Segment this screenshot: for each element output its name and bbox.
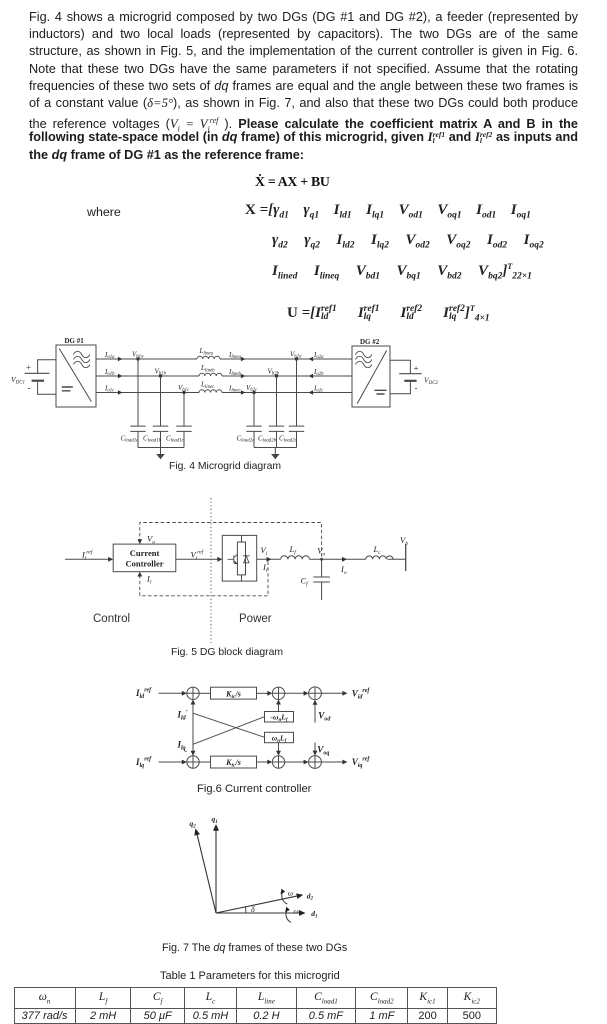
svg-text:Ilqref: Ilqref bbox=[135, 757, 152, 770]
wire phase a left bbox=[96, 358, 197, 360]
svg-text:Il: Il bbox=[262, 562, 268, 574]
wire phase b right bbox=[222, 375, 352, 377]
Kic/s d label bbox=[225, 689, 241, 700]
Ilqref label bbox=[135, 757, 152, 770]
Vod label bbox=[318, 711, 331, 723]
svg-text:+: + bbox=[414, 364, 419, 374]
cross wire Ilq to -wnLf bbox=[193, 717, 265, 745]
Llinea label bbox=[199, 347, 214, 356]
transistor symbol bbox=[228, 554, 238, 564]
axis q2 bbox=[197, 834, 216, 913]
current arrow Io2a bbox=[309, 357, 314, 361]
wire phase a right bbox=[220, 358, 352, 360]
node Vb1b bbox=[159, 374, 162, 377]
arrow Vod into summer d3 bbox=[313, 700, 318, 705]
capacitor Cf bbox=[313, 559, 330, 600]
Vb2c label bbox=[246, 384, 258, 393]
arrow Vo into controller bbox=[137, 539, 142, 544]
Vb label bbox=[400, 535, 408, 547]
current arrow Ilineb bbox=[241, 374, 246, 378]
DG2 diagonal bbox=[357, 350, 387, 403]
svg-text:VDC1: VDC1 bbox=[11, 375, 25, 386]
figure 6: current controller block diagram bbox=[130, 675, 390, 785]
arrow q1 bbox=[213, 824, 219, 831]
svg-text:Viqref: Viqref bbox=[352, 757, 371, 770]
omega label at d1 bbox=[294, 906, 299, 915]
capacitor Cload1a bbox=[130, 359, 145, 448]
Io2a label bbox=[313, 351, 324, 360]
svg-text:Kic/s: Kic/s bbox=[225, 689, 241, 700]
ground rail load1 bbox=[138, 448, 184, 455]
node Vb1c bbox=[182, 391, 185, 394]
svg-text:Vidref: Vidref bbox=[352, 688, 371, 701]
omega arc at d1 bbox=[286, 910, 291, 923]
axis d2 bbox=[216, 896, 298, 913]
svg-text:q2: q2 bbox=[190, 819, 197, 829]
U row bbox=[287, 304, 490, 324]
node Vb1a bbox=[136, 357, 139, 360]
node Vb2c bbox=[252, 391, 255, 394]
equation Xdot = AX + BU bbox=[255, 174, 330, 190]
Vi label bbox=[261, 545, 268, 557]
figure 4: microgrid diagram bbox=[0, 330, 460, 462]
current arrow Io2c bbox=[309, 390, 314, 394]
svg-text:Vb1a: Vb1a bbox=[132, 350, 144, 359]
X = [...] row 1 bbox=[245, 202, 531, 221]
omega arc at d2 bbox=[282, 892, 288, 905]
arrow Vidref bbox=[342, 691, 347, 696]
caption fig 4 bbox=[169, 461, 281, 472]
bus bar Vb bbox=[405, 544, 407, 571]
svg-text:-: - bbox=[415, 383, 418, 393]
inductor Llineb bbox=[199, 373, 222, 376]
svg-text:Cload2a: Cload2a bbox=[237, 434, 256, 443]
X row 2 bbox=[272, 232, 544, 251]
current controller text bbox=[125, 548, 163, 569]
svg-text:Kic/s: Kic/s bbox=[225, 758, 241, 769]
omega arrow at d2 bbox=[281, 889, 286, 895]
Lf label bbox=[289, 544, 298, 556]
Io1c label bbox=[104, 384, 115, 393]
axis q1 bbox=[215, 830, 217, 914]
svg-text:Vi: Vi bbox=[261, 545, 268, 557]
svg-text:δ: δ bbox=[251, 905, 255, 914]
d1 label bbox=[311, 909, 317, 919]
Io2c label bbox=[313, 384, 324, 393]
Ilinec label bbox=[228, 384, 242, 393]
d2 label bbox=[307, 891, 314, 901]
figure 5: DG block diagram bbox=[60, 495, 420, 645]
-wnLf box bbox=[265, 712, 294, 723]
svg-text:Io2c: Io2c bbox=[313, 384, 324, 393]
axis d1 bbox=[216, 912, 300, 914]
DG #1 label bbox=[65, 337, 85, 345]
svg-text:Vb2b: Vb2b bbox=[268, 367, 280, 376]
Io label bbox=[340, 564, 347, 576]
arrow Il on output wire bbox=[267, 557, 272, 562]
Io2b label bbox=[313, 368, 324, 377]
svg-text:q1: q1 bbox=[212, 815, 218, 825]
svg-text:Lf: Lf bbox=[289, 544, 298, 556]
DG2 AC symbol bbox=[356, 351, 372, 367]
inductor Lc bbox=[366, 556, 393, 559]
node Vb2b bbox=[275, 374, 278, 377]
Vo feedback label bbox=[147, 533, 155, 545]
arrow Viqref bbox=[342, 760, 347, 765]
DG2 DC symbol bbox=[375, 390, 387, 394]
svg-text:-: - bbox=[28, 383, 31, 393]
Ilineb label bbox=[228, 368, 242, 377]
svg-text:Vb2c: Vb2c bbox=[246, 384, 258, 393]
svg-text:Ilineb: Ilineb bbox=[228, 368, 242, 377]
DG1 DC symbol bbox=[62, 387, 73, 391]
DG1 diagonal bbox=[59, 349, 91, 402]
svg-text:Cload2b: Cload2b bbox=[258, 434, 277, 443]
summer q3 bbox=[309, 756, 322, 769]
svg-text:Controller: Controller bbox=[125, 559, 163, 569]
wnLf label bbox=[272, 734, 288, 744]
svg-text:Io2a: Io2a bbox=[313, 351, 324, 360]
feedback vertical line bbox=[192, 700, 194, 756]
svg-text:Io2b: Io2b bbox=[313, 368, 324, 377]
Vod input stub bbox=[314, 703, 316, 723]
current arrow Ilinec bbox=[241, 390, 246, 394]
svg-text:-: - bbox=[185, 747, 188, 756]
capacitor Cload2a bbox=[246, 393, 261, 448]
battery VDC2 minus sign bbox=[415, 383, 418, 393]
summer q2 bbox=[272, 756, 284, 768]
svg-text:Voq: Voq bbox=[317, 745, 329, 757]
wire Viqref output bbox=[321, 761, 344, 763]
Cload2a label bbox=[237, 434, 256, 443]
Kic/s q label bbox=[225, 758, 241, 769]
svg-text:Cload1c: Cload1c bbox=[166, 434, 185, 443]
arrow into summer d2 bbox=[267, 691, 272, 696]
Llineb label bbox=[200, 364, 215, 373]
ground load2 bbox=[271, 454, 279, 459]
figure 7: dq frames bbox=[180, 810, 340, 940]
wire box to summer d2 bbox=[257, 692, 269, 694]
X row 3 bbox=[272, 262, 532, 282]
DC source VDC1 label bbox=[11, 375, 25, 386]
arrow Voq into summer q3 bbox=[313, 751, 318, 756]
svg-text:Cload2c: Cload2c bbox=[279, 434, 298, 443]
Cload2b label bbox=[258, 434, 277, 443]
Cload1c label bbox=[166, 434, 185, 443]
svg-text:Ildref: Ildref bbox=[135, 688, 152, 701]
where bbox=[87, 205, 121, 219]
svg-text:DG #2: DG #2 bbox=[360, 338, 380, 346]
svg-text:d1: d1 bbox=[311, 909, 317, 919]
Viref label bbox=[191, 549, 205, 562]
svg-text:Vod: Vod bbox=[318, 711, 331, 723]
battery VDC2 short plate bbox=[404, 380, 416, 382]
wire phase b left bbox=[96, 375, 199, 377]
svg-text:Io1c: Io1c bbox=[104, 384, 115, 393]
svg-text:Lc: Lc bbox=[373, 544, 382, 556]
Voq label bbox=[317, 745, 329, 757]
svg-text:Cload1a: Cload1a bbox=[121, 434, 140, 443]
svg-text:d2: d2 bbox=[307, 891, 314, 901]
Cload2c label bbox=[279, 434, 298, 443]
wire box to summer q2 bbox=[257, 761, 269, 763]
cross wire Ild to wnLf bbox=[193, 713, 265, 737]
arrow into inverter bbox=[217, 557, 222, 562]
Ilinea label bbox=[228, 351, 242, 360]
Vb1b label bbox=[155, 367, 167, 376]
wire Vi out of inverter bbox=[257, 558, 281, 560]
inverter box bbox=[222, 535, 256, 581]
svg-text:Vb1b: Vb1b bbox=[155, 367, 167, 376]
arrow up into summer d2 bbox=[276, 700, 281, 705]
Io1b label bbox=[104, 368, 115, 377]
table title bbox=[160, 970, 340, 982]
wire DG2 to battery2 top bbox=[390, 360, 410, 374]
arrow down into summer q2 bbox=[276, 751, 281, 756]
arrow d2 bbox=[296, 893, 303, 899]
svg-text:Vo: Vo bbox=[147, 533, 155, 545]
omega arrow at d1 bbox=[285, 907, 290, 913]
svg-text:+: + bbox=[26, 363, 31, 373]
svg-text:ω: ω bbox=[288, 889, 293, 898]
arrow into summer q3 bbox=[304, 760, 309, 765]
q2 label bbox=[190, 819, 197, 829]
svg-text:ω: ω bbox=[294, 906, 299, 915]
Cf label bbox=[301, 576, 310, 588]
Vb2a label bbox=[290, 350, 302, 359]
wire -wnLf to summer d2 bbox=[278, 703, 280, 712]
capacitor Cload1b bbox=[153, 376, 168, 448]
paragraph text bbox=[29, 9, 578, 164]
svg-text:Llineb: Llineb bbox=[200, 364, 215, 373]
svg-text:Io: Io bbox=[340, 564, 347, 576]
svg-text:-ωnLf: -ωnLf bbox=[271, 713, 289, 723]
Ilq feedback label bbox=[177, 740, 186, 752]
inverter DG#2 box bbox=[352, 346, 390, 407]
Kic/s box q bbox=[211, 756, 257, 768]
wire battery1 bottom to DG1 bbox=[38, 382, 56, 395]
svg-text:Llinea: Llinea bbox=[199, 347, 214, 356]
summer d3 bbox=[309, 687, 322, 700]
wnLf box bbox=[265, 732, 294, 742]
Vb2b label bbox=[268, 367, 280, 376]
svg-text:Cf: Cf bbox=[301, 576, 310, 588]
svg-text:Ilinec: Ilinec bbox=[228, 384, 242, 393]
control/power separator bbox=[210, 498, 212, 643]
Vb1a label bbox=[132, 350, 144, 359]
summer d1 bbox=[187, 687, 199, 699]
DG1 AC symbol bbox=[74, 351, 90, 367]
current controller box bbox=[113, 544, 176, 572]
wire phase c left bbox=[96, 392, 199, 394]
arrow Ild up into summer d1 bbox=[191, 700, 196, 705]
svg-text:Vb2a: Vb2a bbox=[290, 350, 302, 359]
Vidref label bbox=[352, 688, 371, 701]
arrow into summer q2 bbox=[267, 760, 272, 765]
svg-text:Io1a: Io1a bbox=[104, 351, 115, 360]
battery VDC1 long plate bbox=[25, 372, 50, 374]
wire Ilqref input bbox=[159, 761, 184, 763]
inductor Llinea bbox=[197, 356, 220, 359]
Ild feedback label bbox=[177, 709, 188, 722]
wire Lc to bus bbox=[387, 558, 405, 560]
wire DG2 to battery2 bottom bbox=[390, 382, 410, 394]
svg-text:Ilinea: Ilinea bbox=[228, 351, 242, 360]
svg-text:Current: Current bbox=[130, 548, 160, 558]
arrow into summer d1 bbox=[182, 691, 187, 696]
Cload1a label bbox=[121, 434, 140, 443]
svg-text:Llinec: Llinec bbox=[200, 381, 215, 390]
Il feedback label bbox=[146, 574, 152, 586]
svg-text:Io1b: Io1b bbox=[104, 368, 115, 377]
Vb1c label bbox=[178, 384, 190, 393]
inverter leg rect bbox=[237, 542, 245, 575]
current arrow Io2b bbox=[309, 374, 314, 378]
svg-text:DG #1: DG #1 bbox=[65, 337, 85, 345]
arrow Il into controller bbox=[137, 572, 142, 577]
q1 label bbox=[212, 815, 218, 825]
node Vb2a bbox=[295, 357, 298, 360]
ground load1 bbox=[156, 454, 164, 459]
-wnLf label bbox=[271, 713, 289, 723]
diode symbol bbox=[243, 556, 250, 563]
summer q1 bbox=[187, 756, 199, 768]
wire Vidref output bbox=[321, 692, 344, 694]
Ildref label bbox=[135, 688, 152, 701]
battery VDC1 short plate bbox=[32, 380, 44, 382]
arrow into controller bbox=[108, 557, 113, 562]
svg-text:Vb: Vb bbox=[400, 535, 408, 547]
svg-text:Vb1c: Vb1c bbox=[178, 384, 190, 393]
wire Viref bbox=[176, 558, 219, 560]
current arrow Io1c bbox=[118, 390, 123, 394]
Kic/s box d bbox=[211, 687, 257, 699]
wire Ildref input bbox=[159, 692, 184, 694]
arrow Ilq down into summer q1 bbox=[191, 751, 196, 756]
wire wnLf to summer q2 bbox=[278, 743, 280, 753]
inverter DG#1 box bbox=[56, 345, 96, 407]
minus sign at summer q1 bbox=[185, 747, 188, 756]
wire Lf to node Vo bbox=[310, 558, 366, 560]
Il label bbox=[262, 562, 268, 574]
capacitor Cload2b bbox=[269, 376, 284, 448]
parameters table bbox=[14, 987, 497, 1024]
arrow q2 bbox=[194, 828, 200, 835]
current arrow Io1b bbox=[118, 374, 123, 378]
battery VDC2 long plate bbox=[399, 373, 421, 375]
arrow d1 bbox=[299, 910, 306, 916]
Lc label bbox=[373, 544, 382, 556]
arrow into summer q1 bbox=[182, 760, 187, 765]
svg-text:Ild-: Ild- bbox=[177, 709, 188, 722]
wire summer d2 to summer d3 bbox=[285, 692, 305, 694]
DG #2 label bbox=[360, 338, 380, 346]
svg-text:Cload1b: Cload1b bbox=[143, 434, 162, 443]
ground rail load2 bbox=[254, 448, 297, 455]
wire q1 to box bbox=[199, 761, 210, 763]
Llinec label bbox=[200, 381, 215, 390]
wire d1 to box bbox=[199, 692, 210, 694]
delta label bbox=[251, 905, 255, 914]
inductor Lf bbox=[281, 556, 310, 560]
svg-text:VDC2: VDC2 bbox=[424, 376, 439, 387]
svg-text:Il: Il bbox=[146, 574, 152, 586]
DC source VDC2 label bbox=[424, 376, 439, 387]
capacitor Cload2c bbox=[289, 359, 304, 448]
arrow into summer d3 bbox=[304, 691, 309, 696]
svg-text:ωnLf: ωnLf bbox=[272, 734, 288, 744]
omega label at d2 bbox=[288, 889, 293, 898]
Io1a label bbox=[104, 351, 115, 360]
transistor arrow bbox=[234, 562, 237, 564]
battery VDC1 minus sign bbox=[28, 383, 31, 393]
Voq input stub bbox=[314, 743, 316, 753]
Cload1b label bbox=[143, 434, 162, 443]
Ilref label bbox=[81, 549, 94, 562]
wire battery1 top to DG1 bbox=[38, 360, 56, 374]
current arrow Ilinea bbox=[241, 357, 246, 361]
capacitor Cload1c bbox=[176, 393, 191, 448]
current arrow Io1a bbox=[118, 357, 123, 361]
wire Ilref input bbox=[65, 558, 110, 560]
dashed feedback Vo bbox=[140, 523, 322, 557]
summer d2 bbox=[272, 687, 284, 699]
battery VDC1 plus sign bbox=[26, 363, 31, 373]
inductor Llinec bbox=[199, 390, 222, 393]
node Vo dot bbox=[320, 558, 323, 561]
inverter stubs bbox=[241, 535, 243, 581]
Vo node label bbox=[317, 546, 325, 558]
battery VDC2 plus sign bbox=[414, 364, 419, 374]
wire phase c right bbox=[222, 392, 352, 394]
delta angle arc bbox=[244, 907, 247, 913]
wire summer q2 to summer q3 bbox=[285, 761, 305, 763]
arrow Io bbox=[342, 557, 347, 562]
Viqref label bbox=[352, 757, 371, 770]
dashed feedback Il bbox=[140, 562, 268, 596]
